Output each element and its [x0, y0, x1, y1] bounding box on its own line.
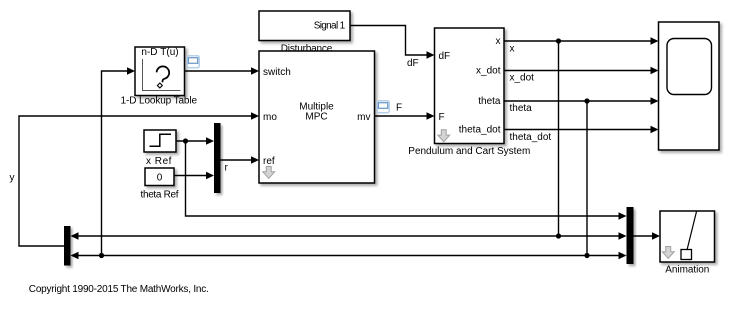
wire theta_dot output to scope: [504, 126, 659, 134]
junction x tap on x line: [556, 233, 561, 238]
svg-text:theta: theta: [510, 103, 533, 114]
svg-text:MPC: MPC: [305, 111, 327, 122]
svg-text:x: x: [496, 36, 501, 47]
mux left (measurements y): [64, 226, 71, 266]
svg-text:x: x: [510, 44, 515, 55]
svg-text:Signal 1: Signal 1: [314, 20, 346, 31]
gray arrow badge in MPC: [263, 167, 275, 179]
svg-text:ref: ref: [263, 156, 275, 167]
svg-text:F: F: [396, 103, 402, 114]
svg-text:Animation: Animation: [665, 264, 709, 275]
badge on mv output: [377, 101, 389, 113]
wire mux to ref: [221, 156, 260, 164]
wire feedback x line to left mux: [71, 232, 627, 240]
mux for references: [214, 123, 221, 193]
svg-text:0: 0: [157, 172, 163, 183]
wire y feedback to mo: [19, 112, 259, 246]
svg-text:mv: mv: [357, 112, 370, 123]
wire x tap down: [558, 41, 560, 236]
block Scope: [659, 22, 720, 150]
svg-text:dF: dF: [439, 51, 451, 62]
block Animation: [660, 211, 715, 262]
wire theta Ref to mux: [174, 172, 214, 180]
scope screen: [667, 39, 712, 95]
badge on lookup output: [187, 56, 199, 68]
mux right (animation inputs): [627, 207, 634, 264]
wire x_dot output to scope: [504, 67, 659, 75]
block Pendulum and Cart System: [435, 28, 505, 144]
wire Signal 1 to dF: [350, 26, 435, 59]
svg-text:y: y: [10, 173, 15, 184]
svg-text:mo: mo: [263, 112, 277, 123]
wire lookup output to switch: [185, 67, 260, 75]
wire mv to F: [375, 112, 435, 120]
animation pendulum rod: [687, 212, 697, 251]
wire x Ref branch down to animation mux: [186, 141, 627, 220]
block Signal 1 (Disturbance): [259, 11, 350, 41]
gray arrow badge in animation: [662, 247, 674, 259]
junction on x Ref wire: [183, 138, 188, 143]
wire theta tap down: [586, 101, 588, 256]
junction lookup tap on theta line: [99, 253, 104, 258]
wire x output to scope: [504, 37, 659, 45]
svg-text:x_dot: x_dot: [476, 65, 501, 76]
wire theta tap vertical to lookup input: [102, 67, 136, 255]
svg-text:theta Ref: theta Ref: [141, 190, 179, 201]
lookup question mark: [157, 66, 170, 82]
svg-text:switch: switch: [263, 67, 291, 78]
svg-text:x Ref: x Ref: [146, 156, 172, 167]
junction on theta wire: [584, 98, 589, 103]
svg-text:theta_dot: theta_dot: [459, 124, 501, 135]
svg-text:Copyright 1990-2015 The MathWo: Copyright 1990-2015 The MathWorks, Inc.: [29, 284, 209, 295]
junction on x wire: [556, 38, 561, 43]
svg-text:theta_dot: theta_dot: [510, 132, 552, 143]
animation cart: [681, 250, 692, 260]
svg-text:dF: dF: [407, 58, 419, 69]
step icon: [150, 134, 172, 146]
wire right mux to animation: [634, 232, 661, 240]
lookup diamond: [157, 83, 162, 88]
block Multiple MPC: [259, 51, 375, 183]
wire x Ref to mux: [176, 137, 214, 145]
gray arrow badge in pendulum: [438, 130, 450, 142]
wire theta output to scope: [504, 97, 659, 105]
block theta Ref (constant 0): [145, 168, 174, 186]
svg-text:1-D Lookup Table: 1-D Lookup Table: [121, 95, 198, 106]
wire feedback theta line to left mux: [71, 252, 627, 260]
svg-text:n-D T(u): n-D T(u): [141, 47, 178, 58]
svg-text:F: F: [439, 112, 445, 123]
svg-text:x_dot: x_dot: [510, 73, 535, 84]
lookup axis: [143, 59, 181, 91]
svg-text:theta: theta: [478, 96, 501, 107]
svg-text:Pendulum and Cart System: Pendulum and Cart System: [408, 146, 530, 157]
block 1-D Lookup Table: [135, 47, 185, 96]
junction theta tap on theta line: [584, 253, 589, 258]
block x Ref (step): [144, 130, 176, 152]
